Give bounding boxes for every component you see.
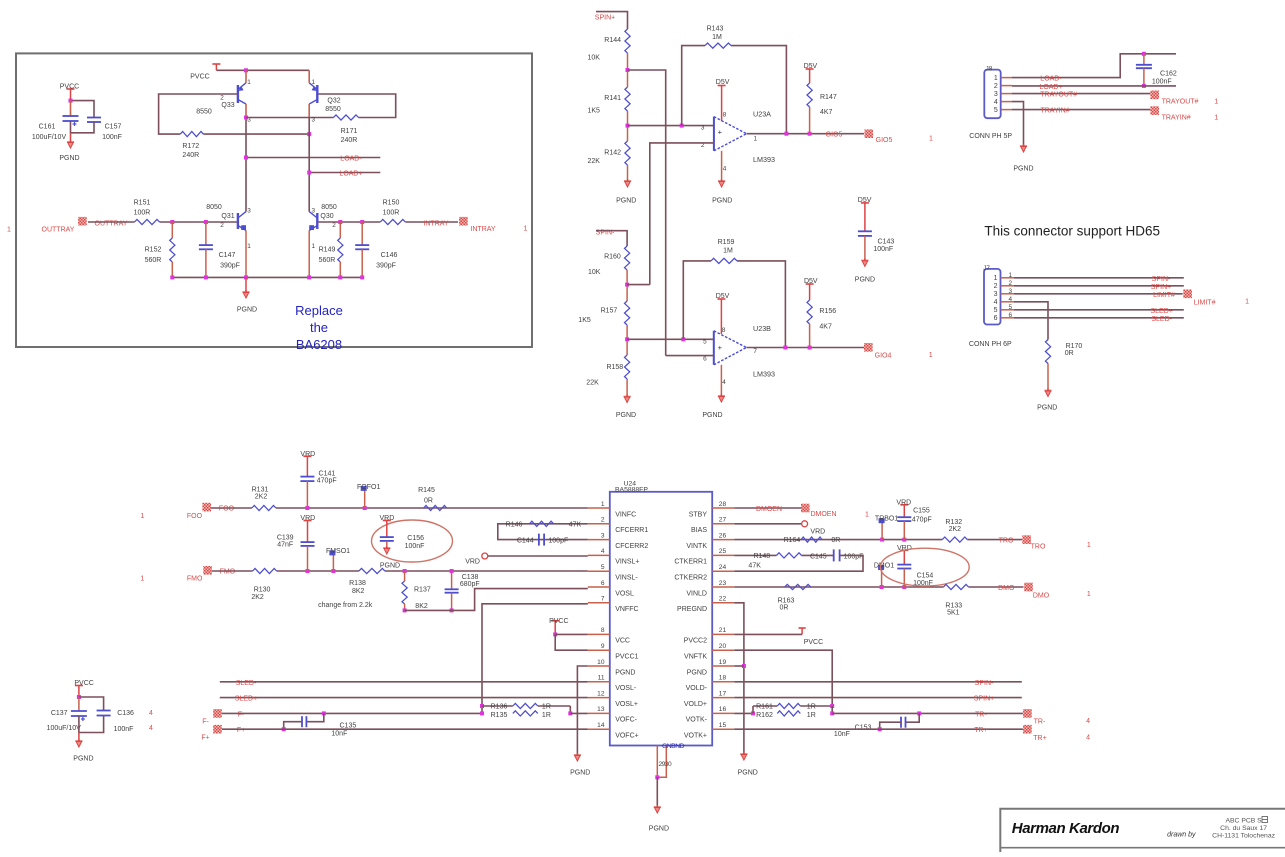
node junction C161 top xyxy=(69,99,73,103)
resistor R144 10K xyxy=(588,29,631,62)
wire divider B to U23A pin2 xyxy=(627,284,650,286)
wire divider A to U23B pin6 xyxy=(628,70,666,356)
wire C161 bottom rail xyxy=(71,121,95,133)
svg-text:VINLD: VINLD xyxy=(686,590,707,597)
pin 18 stub U24 xyxy=(712,675,734,682)
sheet ref 1 DMO xyxy=(1087,591,1091,598)
svg-text:8050: 8050 xyxy=(321,204,337,211)
wire R171 line xyxy=(246,117,334,119)
capacitor C155 470pF xyxy=(897,508,931,540)
node junction feedback A xyxy=(680,124,684,128)
svg-text:3: 3 xyxy=(312,208,316,215)
svg-text:240R: 240R xyxy=(341,137,358,144)
svg-text:This connector support HD65: This connector support HD65 xyxy=(984,224,1160,239)
pin 27 stub U24 xyxy=(712,517,734,524)
wire R133 to DMO xyxy=(969,586,1024,588)
svg-text:6: 6 xyxy=(994,315,998,322)
resistor R172 240R xyxy=(180,132,203,160)
resistor R163 0R xyxy=(778,584,811,611)
wire LOAD+ tap xyxy=(309,172,380,174)
svg-text:1R: 1R xyxy=(542,712,551,719)
node junction divider B top xyxy=(625,283,629,287)
node junction rail Q31 xyxy=(244,275,248,279)
svg-text:2930: 2930 xyxy=(658,761,672,768)
wire Q33 collector xyxy=(245,104,247,212)
svg-text:10nF: 10nF xyxy=(834,731,850,738)
svg-text:Replace: Replace xyxy=(295,303,343,318)
power symbol PVCC (U24) xyxy=(549,618,568,635)
svg-text:DMO1: DMO1 xyxy=(874,563,894,570)
node junction C141 bottom xyxy=(305,506,309,510)
svg-text:5: 5 xyxy=(994,307,998,314)
svg-text:SLED+: SLED+ xyxy=(1151,308,1173,315)
net label SPIN+ (U24 right) xyxy=(974,696,994,703)
power symbol PVCC (PVCC2) xyxy=(799,628,824,646)
svg-text:8K2: 8K2 xyxy=(352,588,365,595)
svg-text:1: 1 xyxy=(1245,299,1249,306)
resistor R159 1M xyxy=(683,239,785,348)
wire Q31 emitter xyxy=(245,231,247,278)
sheet ref 1 LIMIT# xyxy=(1245,299,1249,306)
wire U23A output xyxy=(747,133,865,135)
resistor R146 47K xyxy=(506,521,582,528)
pin 4 stub J7 xyxy=(1001,301,1015,303)
wire SPIN- (J7) xyxy=(1014,277,1184,279)
svg-text:Q32: Q32 xyxy=(327,98,340,105)
wire SLED- (J7) xyxy=(1014,317,1184,319)
pin 3 stub U24 xyxy=(588,532,610,539)
resistor R151 100R xyxy=(134,200,160,225)
pin 8 stub U24 xyxy=(588,627,610,634)
pin 2 stub J8 xyxy=(1001,85,1012,87)
svg-text:20: 20 xyxy=(719,643,727,650)
wire R130 to R138 xyxy=(277,570,359,572)
svg-text:R130: R130 xyxy=(254,587,271,594)
svg-text:100pF: 100pF xyxy=(844,553,864,560)
svg-text:100R: 100R xyxy=(134,210,151,217)
node junction rail R152 xyxy=(170,275,174,279)
node junction rail C147 xyxy=(204,275,208,279)
svg-text:4: 4 xyxy=(1086,735,1090,742)
sheet ref 1 GIO4 xyxy=(929,352,933,359)
svg-text:R171: R171 xyxy=(341,128,358,135)
svg-text:100nF: 100nF xyxy=(114,726,134,733)
wire pins29-30 to PGND xyxy=(656,777,658,807)
svg-text:SPIN-: SPIN- xyxy=(1152,276,1171,283)
svg-text:D5V: D5V xyxy=(804,278,818,285)
wire TRAYIN# xyxy=(1012,109,1150,111)
node junction LOAD+ tap xyxy=(307,171,311,175)
svg-text:TRO: TRO xyxy=(999,537,1014,544)
resistor R130 2K2 xyxy=(251,568,276,601)
svg-text:C157: C157 xyxy=(105,124,122,131)
wire F- to pin13 xyxy=(570,712,588,714)
svg-text:PGND: PGND xyxy=(380,563,400,570)
svg-text:TRBO1: TRBO1 xyxy=(875,516,898,523)
svg-text:3: 3 xyxy=(994,291,998,298)
pin 2 stub J7 xyxy=(1001,285,1015,287)
pin 10 stub U24 xyxy=(588,659,610,666)
svg-text:D5V: D5V xyxy=(716,79,730,86)
node junction TRBO1 xyxy=(880,538,884,542)
wire R158 to PGND xyxy=(626,379,628,397)
off-page connector TRO xyxy=(1022,535,1046,550)
svg-text:1M: 1M xyxy=(723,248,733,255)
net label SPIN- xyxy=(596,230,615,237)
svg-text:VOFC+: VOFC+ xyxy=(615,733,639,740)
svg-text:26: 26 xyxy=(719,532,727,539)
power symbol D5V (R156) xyxy=(804,278,818,300)
net label INTRAY xyxy=(423,220,448,227)
pin 20 stub U24 xyxy=(712,643,734,650)
net label GIO5 on wire xyxy=(826,132,843,139)
svg-text:VRD: VRD xyxy=(300,451,315,458)
net label SPIN+ (J7) xyxy=(1151,284,1171,291)
node junction C162 top xyxy=(1142,52,1146,56)
svg-text:3: 3 xyxy=(701,125,705,132)
node junction feedback B xyxy=(681,337,685,341)
sheet ref 4 C137b xyxy=(149,725,153,732)
svg-text:470pF: 470pF xyxy=(317,477,337,484)
wire SPIN+ (U24) xyxy=(734,697,1022,699)
power symbol VRD (pin4) xyxy=(465,553,588,566)
svg-text:VRD: VRD xyxy=(896,500,911,507)
svg-text:1: 1 xyxy=(929,136,933,143)
node junction C139 bottom xyxy=(306,569,310,573)
svg-text:12: 12 xyxy=(597,690,605,697)
net label SLED- (U24) xyxy=(236,680,257,687)
svg-text:BIAS: BIAS xyxy=(691,527,707,534)
net stub TRBO1 xyxy=(875,516,898,540)
svg-text:D5V: D5V xyxy=(716,293,730,300)
wire R157 to R158 xyxy=(626,325,628,355)
svg-text:R172: R172 xyxy=(182,143,199,150)
pin 17 stub U24 xyxy=(712,690,734,697)
svg-text:4K7: 4K7 xyxy=(820,109,833,116)
node junction R152 top xyxy=(170,220,174,224)
node junction FOFO1 xyxy=(363,506,367,510)
node junction R137 bottom xyxy=(403,608,407,612)
wire R161 right join xyxy=(831,706,833,713)
wire LOAD+ (J8) xyxy=(1012,85,1176,87)
svg-text:PREGND: PREGND xyxy=(677,606,707,613)
svg-text:the: the xyxy=(310,320,328,335)
capacitor C153 10nF xyxy=(834,713,919,738)
capacitor C145 100pF xyxy=(810,549,863,561)
svg-text:R147: R147 xyxy=(820,94,837,101)
wire SLED+ (U24) xyxy=(220,697,588,699)
svg-text:J8: J8 xyxy=(986,66,993,73)
net label SLED+ (J7) xyxy=(1151,308,1173,315)
svg-text:10: 10 xyxy=(597,659,605,666)
wire U23B output xyxy=(746,347,864,349)
svg-text:F-: F- xyxy=(238,711,245,718)
svg-text:R145: R145 xyxy=(418,487,435,494)
svg-text:LIMIT#: LIMIT# xyxy=(1194,299,1216,306)
net label LOAD+ xyxy=(339,171,362,178)
svg-text:0R: 0R xyxy=(424,498,433,505)
off-page connector TRAYOUT# xyxy=(1150,91,1198,106)
node junction R137 top xyxy=(403,569,407,573)
svg-text:F+: F+ xyxy=(201,735,209,742)
net stub DMO1 xyxy=(874,563,894,587)
resistor R138 8K2 xyxy=(349,568,385,595)
svg-text:4: 4 xyxy=(722,379,726,386)
svg-text:1: 1 xyxy=(140,575,144,582)
node junction C153 right xyxy=(917,711,921,715)
off-page connector F- xyxy=(202,709,222,726)
svg-text:1: 1 xyxy=(994,75,998,82)
sheet ref 1 TRAYIN# xyxy=(1214,114,1218,121)
svg-text:2K2: 2K2 xyxy=(251,594,264,601)
svg-text:TRO: TRO xyxy=(1031,543,1046,550)
svg-text:R160: R160 xyxy=(604,254,621,261)
svg-text:PGND: PGND xyxy=(616,198,636,205)
svg-text:DMO: DMO xyxy=(998,585,1015,592)
ground PGND (C143) xyxy=(855,258,875,283)
pin 7 stub U24 xyxy=(588,596,610,603)
svg-text:18: 18 xyxy=(719,675,727,682)
note connector HD65 xyxy=(984,224,1160,239)
svg-text:560R: 560R xyxy=(319,257,336,264)
svg-text:GIO5: GIO5 xyxy=(826,132,843,139)
wire J8 pin4 to PGND xyxy=(1012,102,1024,146)
capacitor C144 100pF xyxy=(517,534,568,546)
resistor R136 1R xyxy=(482,703,570,710)
svg-text:Q30: Q30 xyxy=(320,213,333,220)
svg-text:5: 5 xyxy=(703,339,707,346)
svg-text:1: 1 xyxy=(312,79,316,86)
svg-text:R144: R144 xyxy=(604,37,621,44)
svg-text:F-: F- xyxy=(202,719,209,726)
svg-text:2: 2 xyxy=(601,517,605,524)
pin 16 stub U24 xyxy=(712,706,734,713)
power symbol D5V (U23A) xyxy=(716,79,730,121)
wire CTKERR1 xyxy=(734,554,776,556)
svg-text:R143: R143 xyxy=(707,26,724,33)
svg-text:CFCERR2: CFCERR2 xyxy=(615,543,648,550)
sheet ref 1 TRBO1 xyxy=(865,512,869,519)
ground PGND (R170) xyxy=(1037,389,1057,412)
resistor R147 4K7 xyxy=(807,83,837,134)
resistor R137 8K2 xyxy=(402,571,431,610)
svg-text:1R: 1R xyxy=(807,704,816,711)
capacitor C135 10nF xyxy=(284,713,357,737)
svg-text:100nF: 100nF xyxy=(405,543,425,550)
svg-text:4: 4 xyxy=(994,99,998,106)
svg-text:PVCC: PVCC xyxy=(549,618,568,625)
pin 1 stub J8 xyxy=(1001,77,1012,79)
svg-text:R162: R162 xyxy=(756,712,773,719)
svg-text:1K5: 1K5 xyxy=(578,317,591,324)
wire TRAYOUT# xyxy=(1012,93,1150,95)
op-amp driver IC U24 BA5888FP xyxy=(610,480,712,745)
svg-text:SPIN-: SPIN- xyxy=(975,680,994,687)
net label LOAD+ (J8) xyxy=(1039,84,1062,91)
ground PGND (divider A) xyxy=(616,179,636,205)
svg-text:4: 4 xyxy=(149,725,153,732)
svg-text:LOAD-: LOAD- xyxy=(1040,76,1062,83)
capacitor C154 100nF xyxy=(897,565,933,587)
net stub FMSO1 xyxy=(326,548,350,571)
svg-text:R131: R131 xyxy=(252,486,269,493)
svg-text:R142: R142 xyxy=(604,150,621,157)
capacitor C143 100nF xyxy=(858,197,895,260)
svg-text:VCC: VCC xyxy=(615,638,630,645)
svg-text:22: 22 xyxy=(719,596,727,603)
svg-text:1: 1 xyxy=(1214,114,1218,121)
svg-text:7: 7 xyxy=(753,348,757,355)
capacitor C156 100nF xyxy=(380,535,425,550)
svg-text:R157: R157 xyxy=(601,308,618,315)
svg-text:2: 2 xyxy=(994,283,998,290)
svg-text:R149: R149 xyxy=(319,247,336,254)
connector J8 CONN PH 5P xyxy=(969,66,1012,140)
svg-text:22K: 22K xyxy=(586,380,599,387)
node junction output/feedback B xyxy=(783,346,787,350)
wire F+ to pin14 xyxy=(222,728,588,730)
svg-text:8050: 8050 xyxy=(206,204,222,211)
svg-text:47nF: 47nF xyxy=(277,542,293,549)
svg-text:TRAYOUT#: TRAYOUT# xyxy=(1162,99,1199,106)
power symbol PVCC (C137) xyxy=(74,680,93,697)
net label SLED- (J7) xyxy=(1151,316,1172,323)
svg-text:10K: 10K xyxy=(588,55,601,62)
pin 19 stub U24 xyxy=(712,659,734,666)
svg-text:VINFC: VINFC xyxy=(615,511,636,518)
resistor R145 0R xyxy=(418,487,447,511)
net label FOO xyxy=(219,506,235,513)
svg-text:R136: R136 xyxy=(491,704,508,711)
svg-text:C138: C138 xyxy=(462,574,479,581)
svg-text:6: 6 xyxy=(703,356,707,363)
svg-text:25: 25 xyxy=(719,548,727,555)
svg-text:F+: F+ xyxy=(237,727,245,734)
pin 1 stub J7 xyxy=(1001,277,1015,279)
node junction rail R149 xyxy=(338,275,342,279)
svg-text:6: 6 xyxy=(601,580,605,587)
svg-text:INTRAY: INTRAY xyxy=(470,226,495,233)
svg-text:VRD: VRD xyxy=(300,515,315,522)
wire VNFFC to R136 xyxy=(482,604,588,706)
net label LIMIT# on wire xyxy=(1153,292,1175,299)
node junction divider A top xyxy=(626,68,630,72)
pin 28 stub U24 xyxy=(712,501,734,508)
svg-text:0R: 0R xyxy=(780,605,789,612)
net label F+ xyxy=(237,727,245,734)
svg-text:R163: R163 xyxy=(778,598,795,605)
resistor R133 5K1 xyxy=(944,584,969,616)
svg-text:8550: 8550 xyxy=(196,109,212,116)
pin 14 stub U24 xyxy=(588,722,610,729)
pin 4 stub U24 xyxy=(588,548,610,555)
svg-text:5: 5 xyxy=(601,564,605,571)
pin 23 stub U24 xyxy=(712,580,734,587)
sheet ref 1 OUTTRAY xyxy=(7,227,11,234)
svg-text:VOFC-: VOFC- xyxy=(615,717,637,724)
pin 2 stub U24 xyxy=(588,517,610,524)
svg-text:1R: 1R xyxy=(807,712,816,719)
capacitor C146 390pF xyxy=(355,222,397,277)
node junction C137 top xyxy=(77,695,81,699)
capacitor C137 100uF/10V xyxy=(47,697,87,732)
title block frame xyxy=(1000,809,1285,852)
svg-text:VRD: VRD xyxy=(465,559,480,566)
node junction divider B mid xyxy=(625,337,629,341)
svg-text:Ch. du Saux 17: Ch. du Saux 17 xyxy=(1220,825,1267,832)
resistor R170 0R xyxy=(1045,340,1082,364)
svg-text:1: 1 xyxy=(1087,542,1091,549)
resistor R143 1M xyxy=(682,26,787,134)
net label LOAD- (J8) xyxy=(1040,76,1062,83)
node junction output/feedback A xyxy=(784,132,788,136)
svg-text:R152: R152 xyxy=(145,247,162,254)
svg-text:FOO: FOO xyxy=(187,513,203,520)
svg-text:1: 1 xyxy=(140,513,144,520)
svg-text:C161: C161 xyxy=(39,124,56,131)
svg-text:PGND: PGND xyxy=(570,770,590,777)
svg-text:PGND: PGND xyxy=(712,198,732,205)
svg-text:LOAD-: LOAD- xyxy=(340,156,362,163)
wire pin10 to PGND xyxy=(577,666,587,755)
node junction Q33 collector/R171 xyxy=(244,116,248,120)
node junction C146 top xyxy=(360,220,364,224)
svg-text:470pF: 470pF xyxy=(912,516,932,523)
ground PGND (C137) xyxy=(73,733,93,763)
pin 3 stub J7 xyxy=(1001,293,1015,295)
wire Q30 base to R150 xyxy=(317,221,380,223)
resistor R135 1R xyxy=(491,711,551,719)
wire R138 to pin5 xyxy=(385,570,588,572)
off-page connector DMO xyxy=(1024,583,1050,600)
svg-text:R141: R141 xyxy=(604,95,621,102)
svg-text:100uF/10V: 100uF/10V xyxy=(47,725,82,732)
frame box around replacement circuit xyxy=(16,53,532,347)
svg-text:CTKERR2: CTKERR2 xyxy=(674,575,707,582)
wire TR- to R162 xyxy=(734,712,753,714)
svg-text:17: 17 xyxy=(719,690,727,697)
svg-text:TRAYIN#: TRAYIN# xyxy=(1162,114,1191,121)
resistor R152 560R xyxy=(145,222,175,277)
net label OUTTRAY xyxy=(95,220,128,227)
node junction rail Q30 xyxy=(307,275,311,279)
svg-text:LIMIT#: LIMIT# xyxy=(1153,292,1175,299)
svg-text:R135: R135 xyxy=(491,712,508,719)
svg-text:Harman Kardon: Harman Kardon xyxy=(1012,820,1120,837)
svg-text:560R: 560R xyxy=(145,257,162,264)
svg-text:47K: 47K xyxy=(569,521,582,528)
power symbol VRD (BIAS) xyxy=(734,521,825,536)
svg-text:R150: R150 xyxy=(383,200,400,207)
svg-text:PGND: PGND xyxy=(738,770,758,777)
wire OUTTRAY to R151 xyxy=(88,221,135,223)
pin 3 stub J8 xyxy=(1001,93,1012,95)
pin 25 stub U24 xyxy=(712,548,734,555)
ground PGND (C161 cluster) xyxy=(59,133,79,162)
pin 13 stub U24 xyxy=(588,706,610,713)
wire C161 stem xyxy=(70,101,72,116)
pin 6 stub U24 xyxy=(588,580,610,587)
svg-text:10K: 10K xyxy=(588,269,601,276)
ground PGND (J8) xyxy=(1013,144,1033,173)
wire SPIN- (U24) xyxy=(734,681,1022,683)
wire VNFTK to R161 xyxy=(734,650,832,706)
svg-text:J7: J7 xyxy=(983,265,990,272)
wire SPIN+ (J7) xyxy=(1014,285,1184,287)
svg-text:R133: R133 xyxy=(945,602,962,609)
wire J7 pin4 to R170 xyxy=(1014,302,1048,340)
off-page connector LIMIT# xyxy=(1183,290,1215,307)
